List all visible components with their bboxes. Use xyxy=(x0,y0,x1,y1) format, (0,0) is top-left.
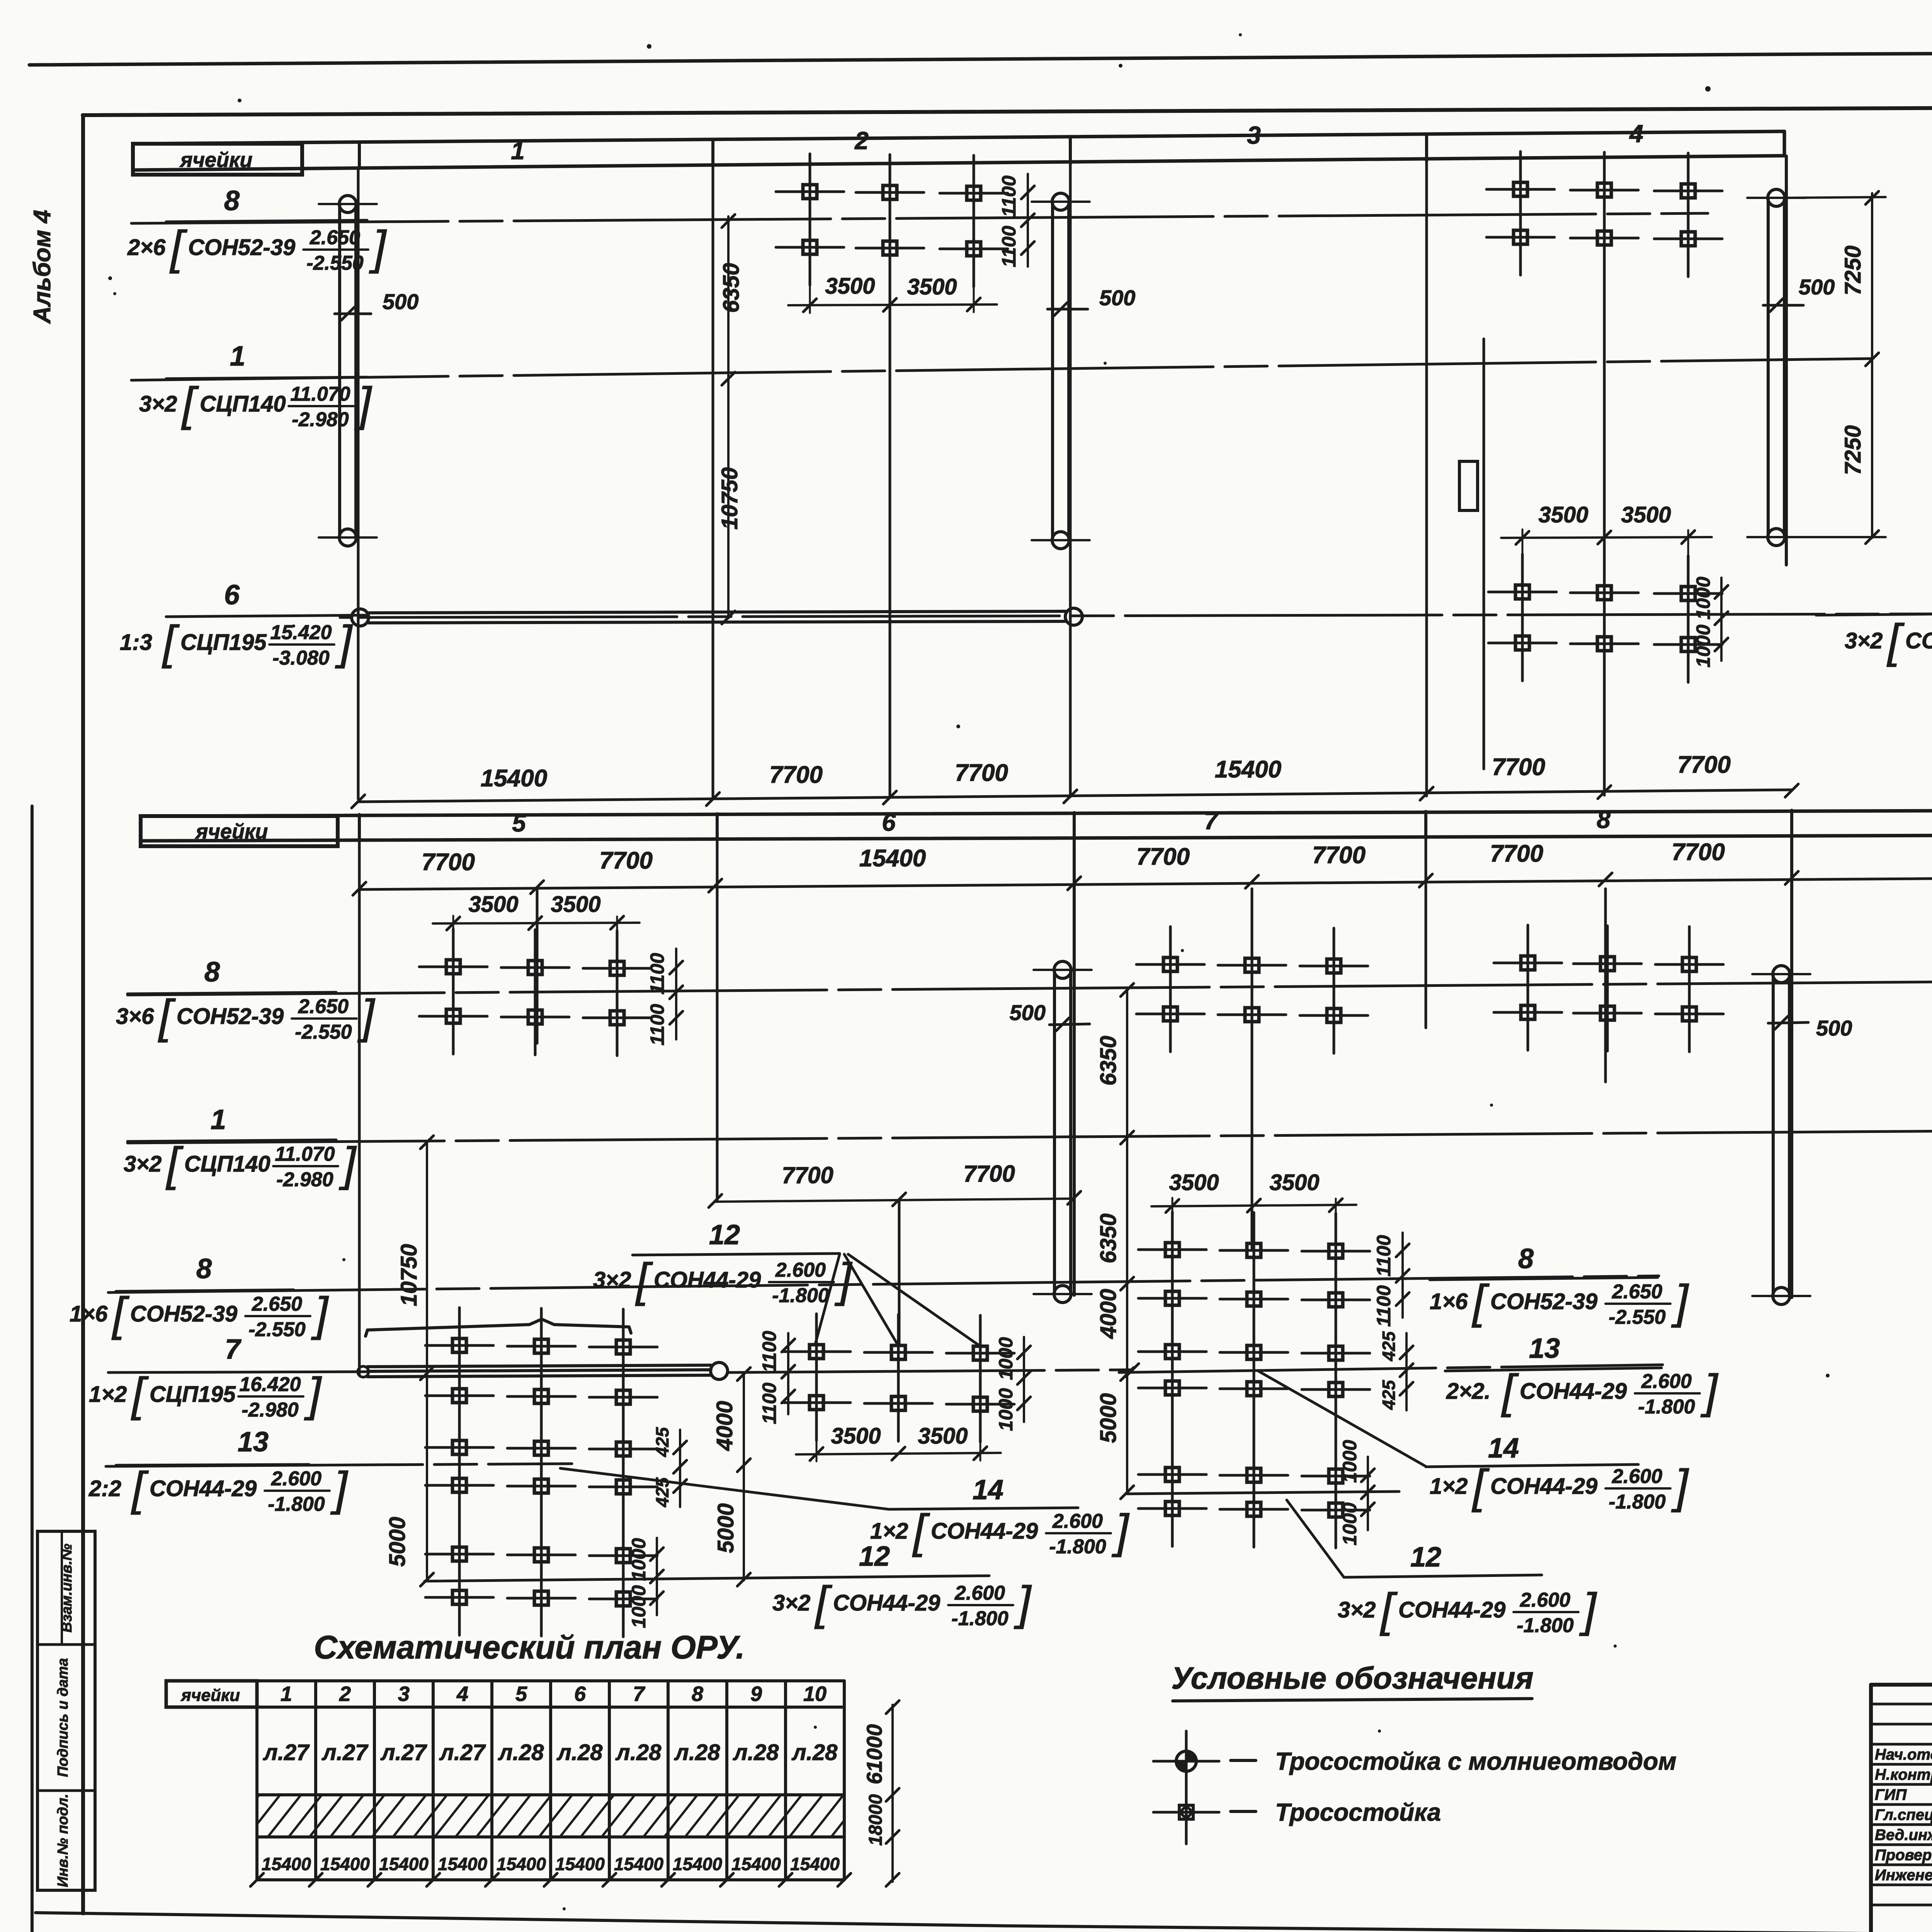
svg-text:1: 1 xyxy=(211,1104,226,1135)
svg-text:2×2.: 2×2. xyxy=(1446,1379,1491,1404)
svg-text:13: 13 xyxy=(1529,1333,1560,1364)
axis 1 top plan xyxy=(131,359,1872,380)
svg-text:5: 5 xyxy=(512,809,526,837)
svg-text:1100: 1100 xyxy=(1373,1285,1395,1327)
svg-text:ячейки: ячейки xyxy=(180,1686,240,1705)
svg-text:л.28: л.28 xyxy=(498,1740,544,1765)
axis line E bottom xyxy=(1073,839,1076,1295)
svg-text:10750: 10750 xyxy=(396,1244,422,1306)
svg-text:7700: 7700 xyxy=(599,847,653,874)
axis 12 central designation xyxy=(1338,1583,1597,1637)
svg-text:425: 425 xyxy=(652,1427,672,1457)
svg-text:-2.550: -2.550 xyxy=(248,1318,306,1341)
svg-text:Вед.инж: Вед.инж xyxy=(1875,1827,1932,1844)
dimension 500 P3 xyxy=(1763,275,1835,312)
page left edge line xyxy=(31,806,34,1932)
dimension 4000 5000 cell5 xyxy=(712,1367,750,1586)
svg-text:18000: 18000 xyxy=(866,1794,886,1846)
svg-text:11.070: 11.070 xyxy=(290,383,350,405)
svg-text:500: 500 xyxy=(1010,1000,1046,1025)
svg-text:СОН44-29: СОН44-29 xyxy=(1905,628,1932,653)
svg-text:СЦП140: СЦП140 xyxy=(200,391,286,417)
cell number 6 xyxy=(882,808,896,836)
header strip label box top xyxy=(133,144,302,175)
svg-text:14: 14 xyxy=(973,1475,1003,1505)
dimension 1000 cell 7 xyxy=(1339,1440,1374,1545)
svg-text:-3.080: -3.080 xyxy=(272,647,330,669)
svg-text:3500: 3500 xyxy=(1621,502,1671,527)
drawing frame bottom xyxy=(36,1913,1871,1932)
svg-text:-2.550: -2.550 xyxy=(295,1021,352,1043)
axis 8 top plan xyxy=(131,213,1708,223)
dimension 3500 cell 2 xyxy=(788,263,997,313)
svg-text:3×6: 3×6 xyxy=(116,1004,154,1029)
cell number 3 xyxy=(1247,121,1261,149)
axis 12 central line xyxy=(1127,1492,1399,1494)
svg-text:л.27: л.27 xyxy=(321,1740,369,1765)
header strip label box bottom xyxy=(141,816,338,846)
svg-text:СОН52-39: СОН52-39 xyxy=(177,1004,284,1029)
header strip cells 5-10 xyxy=(141,809,1932,841)
dimension chain cell 7 xyxy=(1096,983,1134,1499)
cell number 8 xyxy=(1597,806,1611,833)
svg-text:СОН44-29: СОН44-29 xyxy=(1398,1597,1505,1622)
svg-text:2: 2 xyxy=(854,127,869,155)
svg-text:2.650: 2.650 xyxy=(1612,1281,1662,1303)
svg-text:л.28: л.28 xyxy=(556,1740,603,1765)
svg-text:-2.980: -2.980 xyxy=(276,1168,333,1191)
svg-text:3: 3 xyxy=(1247,121,1261,149)
svg-text:СОН44-29: СОН44-29 xyxy=(931,1519,1038,1544)
axis 8b left label xyxy=(116,1253,294,1291)
svg-text:5: 5 xyxy=(515,1682,527,1706)
svg-text:л.28: л.28 xyxy=(674,1740,720,1765)
svg-text:15400: 15400 xyxy=(438,1854,487,1874)
svg-text:СОН44-29: СОН44-29 xyxy=(1520,1379,1627,1404)
svg-text:12: 12 xyxy=(859,1541,890,1572)
svg-text:7700: 7700 xyxy=(782,1162,833,1188)
svg-text:2.650: 2.650 xyxy=(298,995,349,1018)
axis line A bottom xyxy=(358,841,361,1374)
trosostoyka group cell 6 xyxy=(782,1314,1014,1442)
svg-text:15400: 15400 xyxy=(859,845,926,872)
svg-text:1000: 1000 xyxy=(1692,624,1714,667)
axis 12 left designation xyxy=(772,1577,1032,1630)
bus axis 6 xyxy=(340,608,1082,626)
svg-text:ячейки: ячейки xyxy=(195,820,268,843)
svg-text:3×2: 3×2 xyxy=(593,1267,631,1293)
dimension 1000 cell 6 group xyxy=(995,1337,1031,1431)
svg-text:7700: 7700 xyxy=(1492,754,1545,781)
axis line H bottom xyxy=(1604,889,1607,1082)
svg-text:3×2: 3×2 xyxy=(1845,628,1883,653)
svg-text:Условные обозначения: Условные обозначения xyxy=(1171,1661,1533,1695)
trosostoyka group cell 8 upper xyxy=(1494,925,1723,1052)
svg-text:15400: 15400 xyxy=(379,1854,429,1874)
svg-text:12: 12 xyxy=(709,1219,740,1250)
left margin stamp boxes xyxy=(37,1531,95,1890)
leader to label 14 central xyxy=(1258,1371,1426,1466)
dimension 7250 right top xyxy=(1785,191,1886,544)
svg-text:-2.980: -2.980 xyxy=(241,1399,299,1421)
svg-text:1000: 1000 xyxy=(1339,1440,1361,1483)
schematic table sheet labels xyxy=(263,1740,838,1765)
dimension 1100 cell 5 xyxy=(646,949,683,1046)
svg-text:4000: 4000 xyxy=(1096,1289,1121,1339)
axis 14 right designation xyxy=(870,1505,1130,1558)
axis line E top xyxy=(1425,162,1428,796)
svg-text:5000: 5000 xyxy=(713,1503,738,1553)
svg-text:Нач.отд: Нач.отд xyxy=(1875,1746,1932,1763)
svg-text:15400: 15400 xyxy=(262,1854,311,1874)
dimension 425 cell 5 lower xyxy=(652,1427,687,1507)
svg-text:1000: 1000 xyxy=(995,1388,1017,1431)
dimension 3500 cell 5 xyxy=(433,892,639,955)
svg-text:7250: 7250 xyxy=(1840,245,1866,295)
svg-text:7700: 7700 xyxy=(1312,842,1366,869)
axis 13 left label xyxy=(116,1427,309,1465)
page border top line xyxy=(29,49,1932,66)
svg-text:2.600: 2.600 xyxy=(1641,1370,1692,1393)
axis 8b central label xyxy=(1430,1243,1658,1280)
axis 12 top label xyxy=(1816,580,1932,615)
svg-text:1×2: 1×2 xyxy=(1430,1474,1468,1499)
leader to label 12 central xyxy=(1287,1500,1542,1577)
svg-text:1100: 1100 xyxy=(646,1004,668,1046)
axis 6 label xyxy=(166,580,367,617)
svg-text:15400: 15400 xyxy=(1215,756,1281,783)
trosostoyka grid cell 5 lower xyxy=(425,1308,657,1637)
legend item 2 text xyxy=(1275,1798,1441,1826)
dimension 500 P1 xyxy=(335,289,418,320)
svg-text:Инв.№ подл.: Инв.№ подл. xyxy=(55,1794,71,1887)
axis 6-12 line xyxy=(360,614,1932,617)
svg-text:Схематический план ОРУ.: Схематический план ОРУ. xyxy=(314,1629,745,1665)
svg-text:1000: 1000 xyxy=(1339,1502,1361,1545)
svg-text:2×6: 2×6 xyxy=(127,235,166,260)
bracket over grid cell 5 xyxy=(366,1319,631,1336)
portal P2 xyxy=(1032,193,1090,549)
axis 12 mid label xyxy=(633,1219,840,1255)
portal P3 xyxy=(1747,189,1805,546)
axis 12 left label xyxy=(859,1541,890,1572)
dimension 425 cell 7 xyxy=(1379,1331,1413,1410)
portal P1 xyxy=(319,196,377,546)
svg-text:13: 13 xyxy=(238,1427,269,1458)
svg-text:2.650: 2.650 xyxy=(310,226,360,249)
svg-text:15400: 15400 xyxy=(673,1854,722,1874)
svg-text:-1.800: -1.800 xyxy=(268,1493,325,1515)
svg-text:2.600: 2.600 xyxy=(954,1582,1005,1604)
axis 14 central designation xyxy=(1430,1460,1689,1513)
svg-text:3×2: 3×2 xyxy=(139,391,177,417)
svg-text:2:2: 2:2 xyxy=(88,1476,121,1501)
cell number 7 xyxy=(1204,807,1219,835)
svg-text:1: 1 xyxy=(511,137,525,165)
svg-text:-1.800: -1.800 xyxy=(951,1607,1009,1630)
svg-text:15400: 15400 xyxy=(555,1854,605,1874)
axis 13 central line xyxy=(1119,1365,1663,1372)
axis 8 bottom plan xyxy=(128,981,1932,995)
dimension row bottom plan xyxy=(353,839,1932,895)
axis line D bottom xyxy=(898,1199,901,1345)
svg-text:СОН44-29: СОН44-29 xyxy=(150,1476,257,1501)
svg-text:16.420: 16.420 xyxy=(239,1373,301,1396)
bus axis 7 xyxy=(358,1362,728,1379)
svg-text:3500: 3500 xyxy=(1169,1170,1219,1195)
svg-text:9: 9 xyxy=(750,1682,762,1706)
plan title xyxy=(314,1629,745,1665)
trosostoyka group cell 4 lower xyxy=(1488,554,1722,682)
axis line G top xyxy=(1785,156,1788,565)
cell number 2 xyxy=(854,127,869,155)
svg-text:8: 8 xyxy=(196,1253,212,1284)
svg-text:425: 425 xyxy=(1379,1331,1399,1361)
svg-text:7700: 7700 xyxy=(422,849,475,876)
svg-text:2: 2 xyxy=(339,1682,351,1706)
schematic table cell numbers xyxy=(281,1682,827,1706)
svg-text:3×2: 3×2 xyxy=(772,1590,810,1616)
svg-text:15400: 15400 xyxy=(790,1854,840,1874)
svg-text:15400: 15400 xyxy=(481,765,547,792)
axis 8 top designation xyxy=(127,221,387,274)
trosostoyka group cell 7 upper xyxy=(1136,927,1368,1053)
axis line C bottom xyxy=(716,841,719,1201)
svg-text:3: 3 xyxy=(398,1682,410,1706)
svg-text:1: 1 xyxy=(281,1682,292,1706)
axis 13 left line xyxy=(106,1464,572,1466)
legend item 2 symbol xyxy=(1153,1782,1256,1844)
axis line F top xyxy=(1603,166,1606,795)
svg-text:15400: 15400 xyxy=(320,1854,370,1874)
dimension row cell 6 xyxy=(709,1161,1081,1207)
svg-text:7700: 7700 xyxy=(955,760,1008,786)
dimension 3500 cell 6 group xyxy=(796,1419,1001,1461)
svg-text:ячейки: ячейки xyxy=(179,148,253,172)
axis 8b line xyxy=(108,1276,1659,1293)
svg-text:2.600: 2.600 xyxy=(1612,1465,1662,1488)
svg-text:500: 500 xyxy=(383,289,418,314)
axis 8 bottom designation xyxy=(116,990,376,1043)
svg-text:Тросостойка с молниеотводом: Тросостойка с молниеотводом xyxy=(1275,1747,1677,1775)
svg-text:7: 7 xyxy=(1204,807,1219,835)
svg-text:1100: 1100 xyxy=(759,1331,780,1372)
dimension 1000 cell 4 xyxy=(1692,577,1728,667)
axis 8 top label xyxy=(166,185,367,222)
svg-text:л.28: л.28 xyxy=(615,1740,662,1765)
svg-text:2.600: 2.600 xyxy=(271,1468,321,1490)
axis 12 top designation xyxy=(1845,614,1932,668)
svg-text:8: 8 xyxy=(1597,806,1611,833)
dimension 1100 cell 2 xyxy=(998,174,1034,267)
svg-text:1100: 1100 xyxy=(998,175,1020,217)
svg-text:425: 425 xyxy=(1379,1379,1399,1410)
svg-text:3500: 3500 xyxy=(907,274,957,299)
schematic table dimensions 15400 xyxy=(250,1854,851,1886)
axis line F bottom xyxy=(1251,889,1253,1248)
axis line B bottom xyxy=(536,889,539,1043)
svg-text:7700: 7700 xyxy=(769,762,823,788)
svg-text:5000: 5000 xyxy=(385,1517,410,1566)
schematic table grid xyxy=(257,1681,844,1880)
axis 13 central designation xyxy=(1446,1365,1719,1418)
cell number 4 xyxy=(1629,120,1643,148)
axis 12 central label xyxy=(1410,1542,1441,1573)
dimension 500 P4 xyxy=(1010,1000,1090,1031)
svg-text:СЦП140: СЦП140 xyxy=(184,1151,270,1177)
axis line D top xyxy=(1069,164,1072,797)
dimension 1100 cell 7 xyxy=(1373,1233,1409,1327)
album label xyxy=(29,210,56,324)
header strip cells 1-4 xyxy=(133,131,1784,170)
axis 13 central label xyxy=(1445,1333,1662,1371)
svg-text:15400: 15400 xyxy=(497,1854,546,1874)
title block frame xyxy=(1871,1684,1932,1932)
svg-text:500: 500 xyxy=(1799,275,1835,299)
svg-text:3500: 3500 xyxy=(825,274,875,299)
svg-text:7700: 7700 xyxy=(1677,752,1731,778)
svg-text:6350: 6350 xyxy=(1096,1213,1121,1263)
axis 7 designation xyxy=(89,1368,322,1421)
svg-text:500: 500 xyxy=(1816,1016,1852,1040)
svg-text:1100: 1100 xyxy=(998,226,1020,267)
trosostoyka grid cell 7 lower xyxy=(1138,1212,1370,1548)
svg-text:3500: 3500 xyxy=(1269,1170,1319,1195)
schematic table hatch band xyxy=(226,1795,864,1837)
dimension 61000 xyxy=(862,1701,899,1886)
svg-text:1100: 1100 xyxy=(646,953,668,995)
axis line I bottom xyxy=(1790,837,1793,1298)
svg-text:1×6: 1×6 xyxy=(1430,1289,1468,1314)
axis 1 top designation xyxy=(139,378,372,431)
portal P5 xyxy=(1752,966,1810,1304)
axis 1 bottom label xyxy=(128,1104,336,1141)
svg-text:Тросостойка: Тросостойка xyxy=(1275,1798,1441,1826)
svg-text:3500: 3500 xyxy=(918,1423,968,1449)
svg-text:л.28: л.28 xyxy=(733,1740,779,1765)
svg-text:15.420: 15.420 xyxy=(270,621,332,644)
svg-text:3×2: 3×2 xyxy=(124,1151,162,1177)
axis 12 left line xyxy=(425,1576,989,1581)
dimension 1100 cell 5 lower xyxy=(759,1331,795,1424)
dimension 1000 cell 5 lower xyxy=(628,1538,663,1628)
portal P4 xyxy=(1034,961,1092,1303)
svg-text:425: 425 xyxy=(652,1477,672,1507)
svg-text:6: 6 xyxy=(574,1682,586,1706)
trosostoyka group cell 5 upper xyxy=(419,929,651,1056)
svg-text:1000: 1000 xyxy=(628,1538,650,1581)
svg-text:4: 4 xyxy=(1629,120,1643,148)
axis 14 central label xyxy=(1426,1433,1638,1467)
svg-text:Подпись и дата: Подпись и дата xyxy=(55,1658,71,1777)
svg-text:7250: 7250 xyxy=(1840,425,1866,475)
svg-text:10: 10 xyxy=(803,1682,827,1706)
axis 1 top label xyxy=(166,341,367,379)
leader to label 14 right xyxy=(560,1468,1078,1509)
dimension 10750 top xyxy=(717,467,742,624)
svg-text:л.27: л.27 xyxy=(380,1740,427,1765)
dimension 500 P2 xyxy=(1048,286,1135,316)
svg-text:-1.800: -1.800 xyxy=(1049,1536,1106,1558)
svg-text:СОН44-29: СОН44-29 xyxy=(1490,1474,1597,1499)
dimension 3500 cell 4 xyxy=(1501,502,1712,580)
svg-text:л.28: л.28 xyxy=(791,1740,838,1765)
svg-text:11.070: 11.070 xyxy=(275,1143,335,1165)
axis 7 label xyxy=(225,1334,241,1365)
svg-text:8: 8 xyxy=(692,1682,703,1706)
svg-text:8: 8 xyxy=(1518,1243,1534,1274)
svg-text:3500: 3500 xyxy=(468,892,518,917)
svg-text:6: 6 xyxy=(882,808,896,836)
svg-text:1100: 1100 xyxy=(759,1383,780,1424)
svg-text:6: 6 xyxy=(224,580,240,611)
cell number 5 xyxy=(512,809,526,837)
svg-text:8: 8 xyxy=(204,957,220,988)
dimension 10750 bottom xyxy=(396,1136,434,1380)
leaders label 12 mid xyxy=(815,1254,980,1346)
svg-text:СОН52-39: СОН52-39 xyxy=(188,235,295,260)
schematic table label box xyxy=(166,1681,257,1707)
svg-text:-1.800: -1.800 xyxy=(1609,1491,1666,1513)
svg-text:Провер.: Провер. xyxy=(1875,1847,1932,1864)
svg-text:14: 14 xyxy=(1488,1433,1519,1464)
drawing frame left xyxy=(81,115,85,1913)
svg-text:7: 7 xyxy=(225,1334,241,1365)
svg-text:7700: 7700 xyxy=(1136,844,1190,870)
svg-text:2.650: 2.650 xyxy=(252,1293,302,1315)
svg-text:7: 7 xyxy=(633,1682,646,1706)
dimension 500 P5 xyxy=(1768,1016,1852,1040)
axis 12 mid designation xyxy=(593,1253,853,1307)
trosostoyka group cell 4 upper xyxy=(1486,151,1722,277)
legend item 1 text xyxy=(1275,1747,1677,1775)
svg-text:1100: 1100 xyxy=(1373,1235,1395,1277)
svg-text:10750: 10750 xyxy=(717,467,742,529)
axis 13 left designation xyxy=(88,1462,349,1515)
svg-text:1×2: 1×2 xyxy=(870,1519,908,1544)
svg-text:8: 8 xyxy=(224,185,240,216)
svg-text:500: 500 xyxy=(1099,286,1135,310)
svg-text:СОН52-39: СОН52-39 xyxy=(1490,1289,1597,1314)
dimension row top plan xyxy=(352,752,1798,808)
svg-text:2.600: 2.600 xyxy=(1052,1510,1103,1532)
grid cell 5 verticals xyxy=(459,1321,623,1617)
svg-text:СЦП195: СЦП195 xyxy=(150,1382,236,1407)
svg-text:Н.контр: Н.контр xyxy=(1875,1766,1932,1783)
axis 14 right label xyxy=(973,1475,1003,1505)
svg-text:1000: 1000 xyxy=(1692,577,1714,619)
svg-text:7700: 7700 xyxy=(963,1161,1015,1187)
axis 8b left designation xyxy=(70,1287,329,1341)
axis 6 designation xyxy=(120,616,353,669)
axis line A top xyxy=(357,170,360,799)
svg-text:7700: 7700 xyxy=(1490,840,1543,867)
dimension 5000 bottom left xyxy=(385,1374,434,1586)
svg-text:л.27: л.27 xyxy=(439,1740,486,1765)
svg-text:1000: 1000 xyxy=(995,1337,1017,1380)
svg-text:1×6: 1×6 xyxy=(70,1301,108,1327)
svg-text:СОН44-29: СОН44-29 xyxy=(833,1590,940,1616)
trosostoyka group cell 2 xyxy=(776,154,1008,287)
grid cell 7 verticals xyxy=(1172,1225,1336,1528)
svg-text:-1.800: -1.800 xyxy=(1638,1396,1695,1418)
svg-text:3×2: 3×2 xyxy=(1338,1597,1376,1622)
dimension 3500 cell 7 xyxy=(1151,1170,1356,1230)
axis 7 extension xyxy=(728,1364,1139,1377)
svg-text:15400: 15400 xyxy=(731,1854,781,1874)
svg-text:Альбом 4: Альбом 4 xyxy=(29,210,56,324)
svg-text:4000: 4000 xyxy=(712,1401,737,1451)
